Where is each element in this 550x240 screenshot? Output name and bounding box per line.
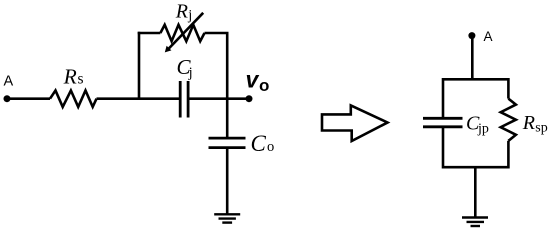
wire loop left vertical xyxy=(138,32,141,99)
capacitor Cj xyxy=(179,81,182,118)
svg-text:C: C xyxy=(251,131,267,156)
block arrow (equivalence) xyxy=(322,105,388,141)
node Vo xyxy=(246,95,253,102)
wire Co to ground xyxy=(226,148,229,215)
capacitor Cjp xyxy=(423,117,463,120)
capacitor Co xyxy=(209,137,246,140)
node A (right) xyxy=(468,32,475,39)
svg-text:jp: jp xyxy=(477,122,489,137)
svg-text:j: j xyxy=(188,65,193,81)
wire res branch lower xyxy=(507,141,510,169)
wire bottom rail xyxy=(443,166,508,169)
svg-text:R: R xyxy=(63,64,77,88)
resistor Rj (variable) xyxy=(160,25,204,41)
svg-text:s: s xyxy=(78,70,84,87)
wire to ground (right) xyxy=(474,167,477,217)
wire Cj to node Vo xyxy=(188,97,249,100)
wire Rs to Cj xyxy=(97,97,182,100)
wire A to Rs xyxy=(7,97,50,100)
wire loop top right xyxy=(205,32,229,35)
wire A down xyxy=(471,36,474,80)
arrow of variable resistor Rj xyxy=(168,13,203,49)
resistor Rsp xyxy=(501,99,516,141)
svg-text:A: A xyxy=(4,74,14,90)
svg-text:A: A xyxy=(484,29,493,44)
wire loop top left xyxy=(138,32,161,35)
svg-text:j: j xyxy=(187,8,192,24)
wire loop right vertical down to main wire xyxy=(226,33,229,99)
svg-text:sp: sp xyxy=(535,121,547,136)
wire cap branch lower xyxy=(442,127,445,169)
ground (left) xyxy=(214,213,240,215)
wire top rail xyxy=(443,78,508,81)
wire res branch upper xyxy=(507,78,510,99)
wire junction to Co xyxy=(226,99,229,138)
svg-text:R: R xyxy=(175,0,188,22)
resistor Rs xyxy=(50,91,97,107)
wire cap branch upper xyxy=(442,78,445,118)
svg-text:v: v xyxy=(246,66,260,92)
node A (left input) xyxy=(4,95,11,102)
svg-text:o: o xyxy=(267,139,274,155)
svg-text:R: R xyxy=(522,112,535,134)
svg-text:o: o xyxy=(259,76,269,95)
ground (right) xyxy=(462,216,488,218)
